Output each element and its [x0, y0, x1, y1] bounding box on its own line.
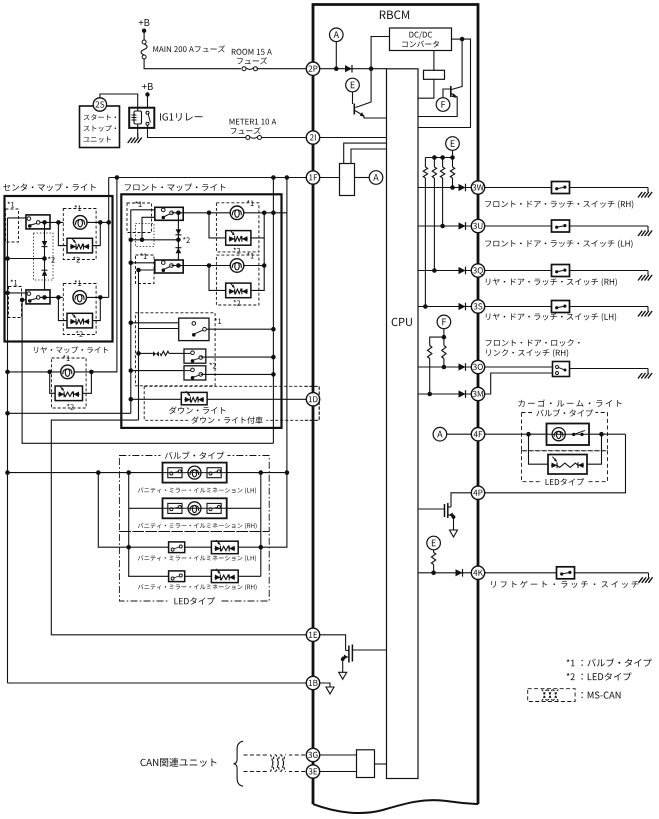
resistor block under DC/DC	[424, 70, 445, 79]
label 3U	[485, 240, 632, 248]
front diode column	[177, 213, 179, 266]
pin 2P	[306, 62, 319, 75]
bulb front map 1	[230, 206, 244, 220]
map light switch SW1	[26, 215, 50, 229]
label METER1 10A fuse	[230, 119, 277, 125]
label front map light	[125, 183, 226, 191]
wire CPU to pin 3W	[418, 187, 471, 189]
DC/DC converter U-dcdc	[390, 28, 452, 51]
LED front map 1	[226, 231, 251, 246]
ground for IG1 relay coil	[137, 124, 139, 137]
off-page arrow (1E driver)	[339, 672, 347, 679]
pin 3W	[471, 181, 484, 194]
connector 2S	[93, 98, 106, 111]
label *1	[74, 205, 81, 211]
down-light switch SW7	[184, 366, 206, 380]
wire RH lamp right	[227, 507, 261, 509]
dashed variant box sw1	[6, 209, 19, 242]
wire SW4 out	[172, 265, 230, 267]
ground	[647, 271, 649, 276]
wire LED f2 right	[251, 266, 264, 291]
diode D up	[176, 248, 182, 254]
wire 1B to arrow	[320, 683, 330, 687]
diode on 3U line	[459, 222, 466, 229]
diode on 4K line	[456, 569, 463, 576]
dashed variant box sw2	[9, 287, 22, 318]
LED front map 2	[226, 283, 251, 298]
label *2	[233, 248, 240, 254]
vanity mirror lamp LH (bulb)	[163, 463, 227, 483]
front map light box	[121, 194, 281, 428]
front bulb2 dashed box	[216, 255, 259, 305]
wire SW6 out	[201, 356, 274, 358]
label *2	[183, 237, 190, 243]
MOSFET Q3	[418, 508, 445, 510]
diode D1 on 2P line	[345, 65, 352, 72]
wire DC/DC loop to CPU	[418, 39, 471, 127]
wire +B to IG1 relay	[147, 95, 149, 112]
wire lock-link switch to ground	[570, 368, 649, 370]
bulb rear map	[61, 365, 75, 379]
ground	[647, 226, 649, 231]
fuse METER1 10A	[246, 136, 250, 140]
wire dropper to CPU	[418, 79, 434, 98]
wire relay to METER1 fuse	[148, 125, 246, 138]
resistor R5	[442, 346, 446, 359]
wire SW5 out	[206, 328, 273, 330]
diode D down	[42, 241, 48, 247]
CPU block	[387, 69, 419, 779]
label *2	[233, 300, 240, 306]
label *2	[73, 257, 80, 263]
wire E to bank bus	[452, 150, 454, 157]
pin 4F	[471, 428, 484, 441]
centre bulb dashed box	[63, 209, 96, 260]
wire bulb1-bulb2 link	[263, 238, 265, 266]
pin 1B	[306, 676, 319, 689]
cargo room lamp (bulb type)	[547, 424, 590, 446]
label *1	[74, 280, 81, 286]
label vanity LH	[138, 487, 256, 493]
wire SW3 out	[172, 212, 230, 214]
label *1	[214, 318, 221, 324]
wire 1F feed bus	[109, 177, 307, 179]
wire left bus to 1B	[8, 682, 307, 684]
diode D down	[176, 229, 182, 235]
wire 3M to lock-link switch	[485, 373, 553, 394]
node E (4K)	[427, 536, 441, 550]
wire LED f1 left	[209, 213, 226, 238]
dotted variant box diodes	[34, 233, 54, 280]
wire A to 2P line	[335, 42, 337, 69]
wire 2I to CPU	[320, 137, 387, 139]
ground	[647, 369, 649, 374]
wire 1F drop to rear map light	[91, 178, 117, 372]
resistor R3	[442, 158, 444, 168]
wire bulb1 right	[244, 212, 287, 214]
front bus	[130, 210, 132, 413]
centre bulb2 dashed box	[63, 284, 96, 335]
wire driver to node A	[355, 177, 370, 179]
wire CPU to 1F driver upper	[344, 143, 387, 163]
vanity mirror lamp RH (bulb)	[163, 498, 227, 518]
wire +B to MAIN fuse	[143, 31, 145, 41]
wire LED1 parallel left	[58, 222, 67, 245]
wire LED LH right	[238, 546, 261, 548]
wire E to transistor Q1 base	[352, 92, 354, 104]
wire MAIN fuse to ROOM fuse	[144, 58, 241, 68]
pin 3O	[471, 360, 484, 373]
bulb centre map 2	[73, 291, 87, 305]
wire CPU to pin 3M	[418, 393, 471, 395]
pin 3U	[471, 219, 484, 232]
wire SW5 leg junction	[136, 351, 141, 356]
wire sw to LED LH	[185, 546, 212, 548]
dotted variant box sw2	[136, 255, 155, 284]
node E (2P area)	[346, 78, 360, 92]
legend MS-CAN	[528, 689, 575, 702]
wire bulb2 right	[87, 296, 109, 298]
fuse MAIN 200A (fusible link)	[142, 40, 146, 44]
label 3Q	[486, 278, 617, 286]
junction dot	[460, 37, 465, 42]
diode on 3M line	[459, 390, 466, 397]
fuse ROOM 15A	[242, 67, 246, 71]
label liftgate latch switch	[491, 580, 638, 587]
wire *2 mid row	[131, 239, 179, 241]
down-light inner dashed box	[135, 313, 215, 386]
wire SW1 left	[8, 217, 27, 219]
LED centre map 1	[67, 238, 93, 253]
front bulb1 dashed box	[216, 203, 259, 252]
wire vanity feed row	[8, 472, 287, 474]
off-page arrow (4P driver)	[450, 530, 458, 537]
wire SW4 upper left	[131, 262, 155, 264]
pin 1D	[306, 393, 319, 406]
wire 1F drop to vanity	[286, 178, 288, 473]
map light switch SW4	[155, 260, 183, 273]
twist symbol	[268, 749, 289, 778]
label *1	[135, 201, 142, 207]
left bus wire	[7, 218, 9, 683]
transistor Q1	[353, 104, 355, 115]
start-stop unit box	[80, 106, 120, 148]
label down light car	[191, 416, 262, 423]
label *1	[247, 253, 254, 259]
wire bulb1 right	[87, 221, 109, 223]
label cargo room light	[518, 399, 621, 407]
wire SW1 out	[40, 221, 64, 223]
wire LED2 parallel left	[58, 297, 67, 320]
node F (3O)	[437, 315, 451, 329]
wire SW5 left leg	[139, 329, 179, 421]
bulb front map 2	[230, 259, 244, 273]
wire SW4 lower left	[139, 269, 155, 271]
wire 1F drop to front map light	[272, 178, 274, 444]
legend *2	[567, 673, 575, 680]
vanity LED-type dashdot box	[119, 532, 269, 602]
wire rear row	[8, 371, 61, 373]
wire switch to ground	[570, 187, 649, 189]
junction dot	[334, 66, 339, 71]
wire rear bulb right	[74, 371, 117, 373]
wire down LED to 1D	[207, 398, 306, 400]
LED centre map 2	[67, 313, 93, 328]
resistor R4	[452, 158, 454, 168]
liftgate latch switch	[557, 567, 575, 579]
MS-CAN twisted pair to 3E	[244, 771, 307, 773]
CAN transceiver block	[357, 750, 375, 778]
wire 3W to latch switch	[485, 187, 552, 189]
pin 3E	[306, 765, 319, 778]
label IG1 relay	[160, 113, 202, 121]
wire CPU to pin 3U	[418, 225, 471, 227]
wire lamp to LED right	[587, 434, 602, 464]
diode on 3O line	[459, 363, 466, 370]
wire to DC/DC input	[371, 37, 389, 69]
pin 3Q	[471, 264, 484, 277]
rear map dashed box	[52, 358, 87, 408]
wire switch to ground	[570, 270, 649, 272]
wire 4K to liftgate latch switch	[485, 572, 557, 574]
vanity LED LH	[211, 541, 238, 554]
1D dashed box right	[305, 386, 319, 420]
wire 2P to CPU	[320, 68, 387, 70]
wire DC/DC bottom to dropper	[433, 51, 435, 71]
label vanity LED type	[174, 597, 214, 605]
wire cargo to 4P	[485, 434, 626, 493]
label vanity LED RH	[138, 584, 257, 590]
wire CPU to pin 3O	[418, 366, 471, 368]
wire bulb2 right	[244, 265, 264, 267]
vanity LED RH	[211, 570, 238, 583]
wire SW7 out	[201, 373, 274, 375]
centre map light box	[5, 196, 113, 342]
label vanity RH	[138, 523, 257, 529]
wire LED RH row left	[129, 508, 169, 576]
diode on dimmer row	[153, 351, 156, 356]
door latch switch	[552, 301, 570, 313]
wire bus to down LED	[131, 398, 182, 400]
wire CPU to 1F driver lower	[351, 149, 387, 164]
wire F down	[443, 329, 445, 346]
node F (top)	[436, 98, 450, 112]
wire SW2 out	[40, 296, 63, 298]
wire rear LED right	[83, 372, 92, 393]
CPU label	[392, 318, 412, 326]
wire vanity LED bus	[260, 473, 262, 577]
pin 4K	[471, 566, 484, 579]
door latch switch	[552, 182, 570, 194]
wire sw to LED RH	[185, 575, 212, 577]
transistor Q2	[450, 86, 452, 97]
pin 2I	[306, 131, 319, 144]
wire front bus bottom to left bus	[8, 412, 131, 414]
down-light car dashed box	[144, 386, 319, 420]
wire switch to ground	[570, 306, 649, 308]
vanity RH row	[129, 507, 163, 509]
wire SW2 lower left	[22, 299, 26, 301]
wire to RH lamp left	[128, 473, 130, 509]
wire 3Q to latch switch	[485, 270, 552, 272]
node A (1F)	[369, 171, 383, 185]
diode on 3W line	[459, 184, 466, 191]
label *2	[209, 363, 216, 369]
vanity bulb-type dashdot box	[119, 456, 269, 532]
resistor R8	[160, 351, 169, 355]
pin 3G	[306, 748, 319, 761]
wire Q3 to off-page arrow	[453, 517, 455, 530]
node E (resistor bank)	[446, 137, 460, 151]
junction dot	[369, 66, 374, 71]
wire 3O to lock-link switch	[485, 366, 553, 368]
battery +B node 1	[139, 19, 150, 26]
wire LED2 parallel right	[93, 297, 101, 320]
wire CPU to pin 3S	[418, 306, 471, 308]
wire vanity right bus	[261, 473, 287, 548]
relay IG1	[129, 108, 154, 128]
wire LED LH-RH link	[128, 546, 130, 548]
wire lamp to LED left	[529, 434, 549, 464]
door latch switch	[552, 265, 570, 277]
cargo bulb-type dashed box	[522, 413, 608, 451]
down-light switch SW6	[184, 349, 206, 363]
centre SW2 bus	[22, 300, 273, 443]
wire bus to down switch	[131, 322, 192, 324]
label CAN units	[140, 758, 216, 767]
label *1	[10, 280, 17, 286]
wire CPU to pin 3Q	[418, 270, 471, 272]
wire LED LH row left	[98, 473, 168, 548]
wire 2S to relay coil	[100, 94, 138, 111]
down-light relay switch SW5	[179, 318, 209, 341]
label *1	[140, 253, 147, 259]
dashed variant box sw1	[127, 203, 152, 233]
map light switch SW3	[155, 207, 183, 220]
wire F to Q2 base	[443, 89, 451, 98]
vanity LED switch RH	[169, 571, 185, 582]
wire *2 row	[8, 258, 45, 260]
wire E to resistor	[433, 550, 435, 553]
label 3W	[485, 200, 633, 208]
pin 4P	[471, 486, 484, 499]
LED rear map	[55, 386, 82, 401]
LED down light	[181, 392, 207, 404]
wire transceiver to CPU	[375, 763, 387, 765]
battery +B node 2	[142, 83, 153, 90]
brace	[234, 741, 244, 786]
wire LED f1 right	[251, 213, 264, 238]
label centre map light	[3, 183, 96, 191]
wire rear LED left	[50, 372, 55, 393]
pin 3S	[471, 300, 484, 313]
diode on 3Q line	[459, 267, 466, 274]
door latch switch	[552, 220, 570, 232]
wire 1E to MOSFET Q4	[320, 635, 346, 651]
wire METER1 fuse to pin 2I	[262, 137, 307, 139]
pull-up bus	[425, 157, 452, 159]
RBCM module outline	[313, 5, 478, 805]
label *1	[7, 202, 14, 208]
wire switch to ground	[575, 572, 649, 574]
wire bus to SW7	[131, 370, 184, 372]
off-page arrow (1B)	[326, 687, 334, 694]
ground	[647, 307, 649, 312]
node A (4F)	[433, 427, 447, 441]
legend *1	[567, 659, 575, 666]
wire switch to ground	[570, 225, 649, 227]
wire 3S to latch switch	[485, 306, 552, 308]
ground	[647, 188, 649, 193]
wire SW5 leg to 1E	[51, 420, 306, 635]
RBCM label	[380, 10, 409, 19]
pin 3M	[471, 387, 484, 400]
MS-CAN twisted pair to 3G	[244, 754, 307, 756]
wire 3U to latch switch	[485, 225, 552, 227]
wire 4P to MOSFET Q3	[451, 493, 471, 507]
wire ROOM fuse to pin 2P	[257, 68, 307, 70]
wire SW3 lower left	[142, 217, 155, 240]
label rear map light	[34, 346, 108, 353]
diode on 3S line	[459, 303, 466, 310]
label down light	[169, 406, 225, 414]
node A (top)	[330, 28, 344, 42]
wire CPU to pin 4K	[418, 572, 471, 574]
label *2	[67, 404, 74, 410]
wire LED1 parallel right	[93, 222, 101, 245]
wire 3G to CAN transceiver	[320, 754, 357, 756]
pin 1E	[306, 628, 319, 641]
wire 1F to driver	[320, 177, 340, 179]
wire LED RH right	[238, 575, 261, 577]
wire 4F to cargo lamp	[485, 433, 547, 435]
label *2	[48, 257, 55, 263]
pin 1F	[306, 171, 319, 184]
cargo LED-type dashed box	[522, 451, 608, 482]
wire 1F drop to centre map light	[108, 178, 110, 298]
wire SW3 upper left	[131, 209, 155, 211]
resistor R7	[431, 553, 435, 565]
cargo room lamp (LED type)	[548, 455, 587, 475]
bulb centre map 1	[73, 216, 87, 230]
label vanity bulb type	[165, 451, 225, 459]
wire cargo lamp out	[589, 433, 626, 435]
wire LED f2 left	[209, 266, 226, 291]
wire 3E to CAN transceiver	[320, 771, 357, 773]
label *1	[63, 355, 70, 361]
ground	[648, 573, 650, 578]
label 3S	[486, 313, 616, 321]
vanity LED switch LH	[169, 542, 185, 553]
wire DC/DC out to F transistor	[452, 38, 463, 40]
label vanity LED LH	[138, 555, 256, 561]
resistor R6	[428, 346, 432, 359]
wire Q4 to off-page arrow	[342, 659, 344, 672]
label ROOM 15A fuse	[232, 49, 272, 55]
wire A to 4F	[447, 433, 472, 435]
label *2	[76, 331, 83, 337]
wire SW2 upper left	[8, 292, 27, 294]
front door lock-link switch	[553, 362, 570, 377]
map light switch SW2	[26, 290, 50, 304]
branch to R6	[430, 337, 444, 345]
1F driver block	[340, 164, 355, 196]
label MAIN 200A fuse	[153, 45, 225, 52]
resistor R2	[433, 158, 435, 168]
label *1	[247, 200, 254, 206]
MOSFET Q4	[352, 649, 386, 651]
dotted variant box sw1b	[136, 224, 155, 247]
